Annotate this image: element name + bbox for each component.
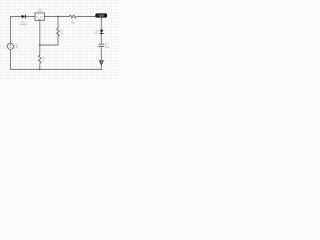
node junction adj — [39, 44, 41, 46]
wire LED to cap — [100, 34, 102, 44]
svg-text:10uF: 10uF — [105, 47, 110, 49]
wire triangle to bus — [100, 64, 102, 69]
wire adj node horizontal — [40, 44, 58, 46]
svg-text:ADJ: ADJ — [38, 18, 41, 21]
bottom bus — [11, 68, 102, 70]
regulator U1 — [35, 9, 45, 21]
voltage source V1 — [7, 43, 19, 49]
wire R1 to badge — [77, 16, 95, 18]
svg-text:LED: LED — [94, 33, 99, 35]
wire diode to regulator — [26, 16, 35, 18]
wire gnd pin down — [39, 20, 41, 45]
wire badge down to LED — [100, 18, 102, 30]
resistor R1 — [69, 15, 76, 25]
node junction bus — [39, 69, 41, 71]
wire left column down — [10, 17, 12, 44]
svg-text:LM317: LM317 — [37, 11, 44, 13]
wire cap to triangle — [100, 46, 102, 61]
wire node to R3 top — [39, 45, 41, 55]
svg-text:12V: 12V — [14, 48, 18, 50]
wire output to R2 top — [57, 17, 59, 29]
wire regulator out to resistor R1 — [44, 16, 69, 18]
ground symbol (open triangle, point down) — [100, 61, 104, 65]
wire R3 bottom to bus — [39, 64, 41, 70]
LED D2 — [94, 30, 103, 36]
net flag badge +12V — [95, 13, 107, 17]
node junction at VOUT / R2 tap — [57, 16, 59, 18]
wire below source — [10, 49, 12, 69]
resistor R2 — [57, 28, 65, 36]
wire top-left horizontal — [11, 16, 22, 18]
capacitor C1 — [98, 44, 110, 49]
svg-text:+12V: +12V — [98, 15, 104, 18]
svg-text:1N4007: 1N4007 — [20, 24, 28, 26]
diode D1 — [20, 15, 28, 27]
wire R2 bottom to node — [57, 36, 59, 45]
resistor R3 — [38, 55, 46, 63]
